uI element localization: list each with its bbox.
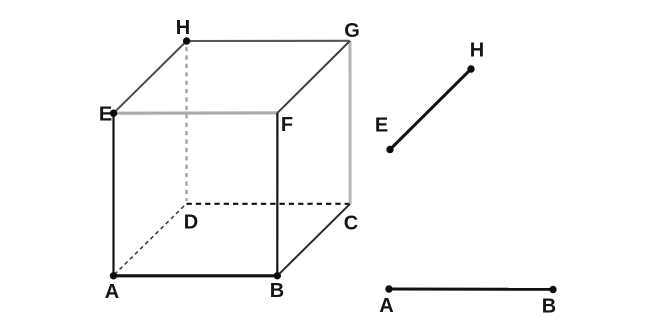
svg-text:H: H xyxy=(176,17,190,39)
svg-text:F: F xyxy=(281,114,293,136)
svg-text:A: A xyxy=(379,295,393,317)
svg-text:H: H xyxy=(470,40,484,62)
svg-text:E: E xyxy=(99,103,112,125)
svg-text:C: C xyxy=(344,213,358,235)
svg-text:B: B xyxy=(270,280,284,302)
svg-text:G: G xyxy=(344,20,360,42)
svg-text:A: A xyxy=(105,281,119,303)
svg-text:D: D xyxy=(184,212,198,234)
svg-text:E: E xyxy=(375,115,388,137)
svg-text:B: B xyxy=(542,296,556,318)
